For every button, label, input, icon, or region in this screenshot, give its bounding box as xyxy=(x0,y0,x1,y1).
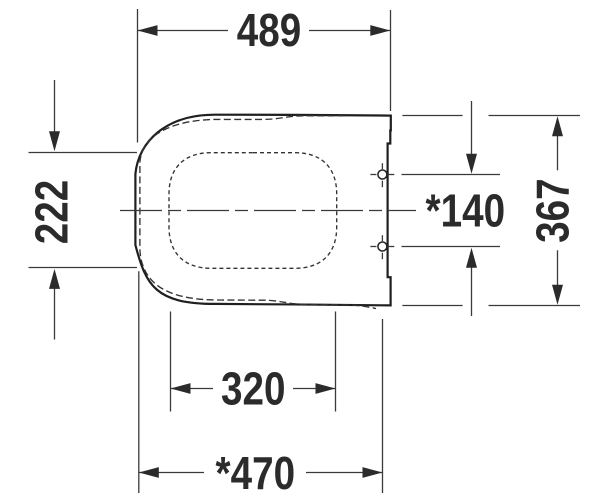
svg-text:222: 222 xyxy=(26,180,77,244)
dimension 320 (inner width) xyxy=(171,312,336,412)
seat lid outline xyxy=(135,115,390,306)
dimension 367 (right overall height) xyxy=(402,116,580,306)
seat ring dashed contour xyxy=(140,116,376,309)
svg-text:*470: *470 xyxy=(216,448,295,499)
dimension *140 (hinge spacing) xyxy=(402,101,501,316)
hinge hole upper (circle) xyxy=(370,163,394,187)
dimension *470 (bottom width) xyxy=(139,271,383,493)
svg-text:489: 489 xyxy=(237,5,301,56)
dimension 489 (top width) xyxy=(138,9,391,143)
horizontal centerline xyxy=(120,210,416,212)
svg-text:320: 320 xyxy=(221,363,285,414)
svg-text:367: 367 xyxy=(527,178,578,242)
svg-text:*140: *140 xyxy=(426,185,505,236)
hinge hole lower (circle) xyxy=(370,235,394,259)
inner opening dashed oval xyxy=(169,153,337,269)
dimension 222 (left height) xyxy=(29,80,138,340)
